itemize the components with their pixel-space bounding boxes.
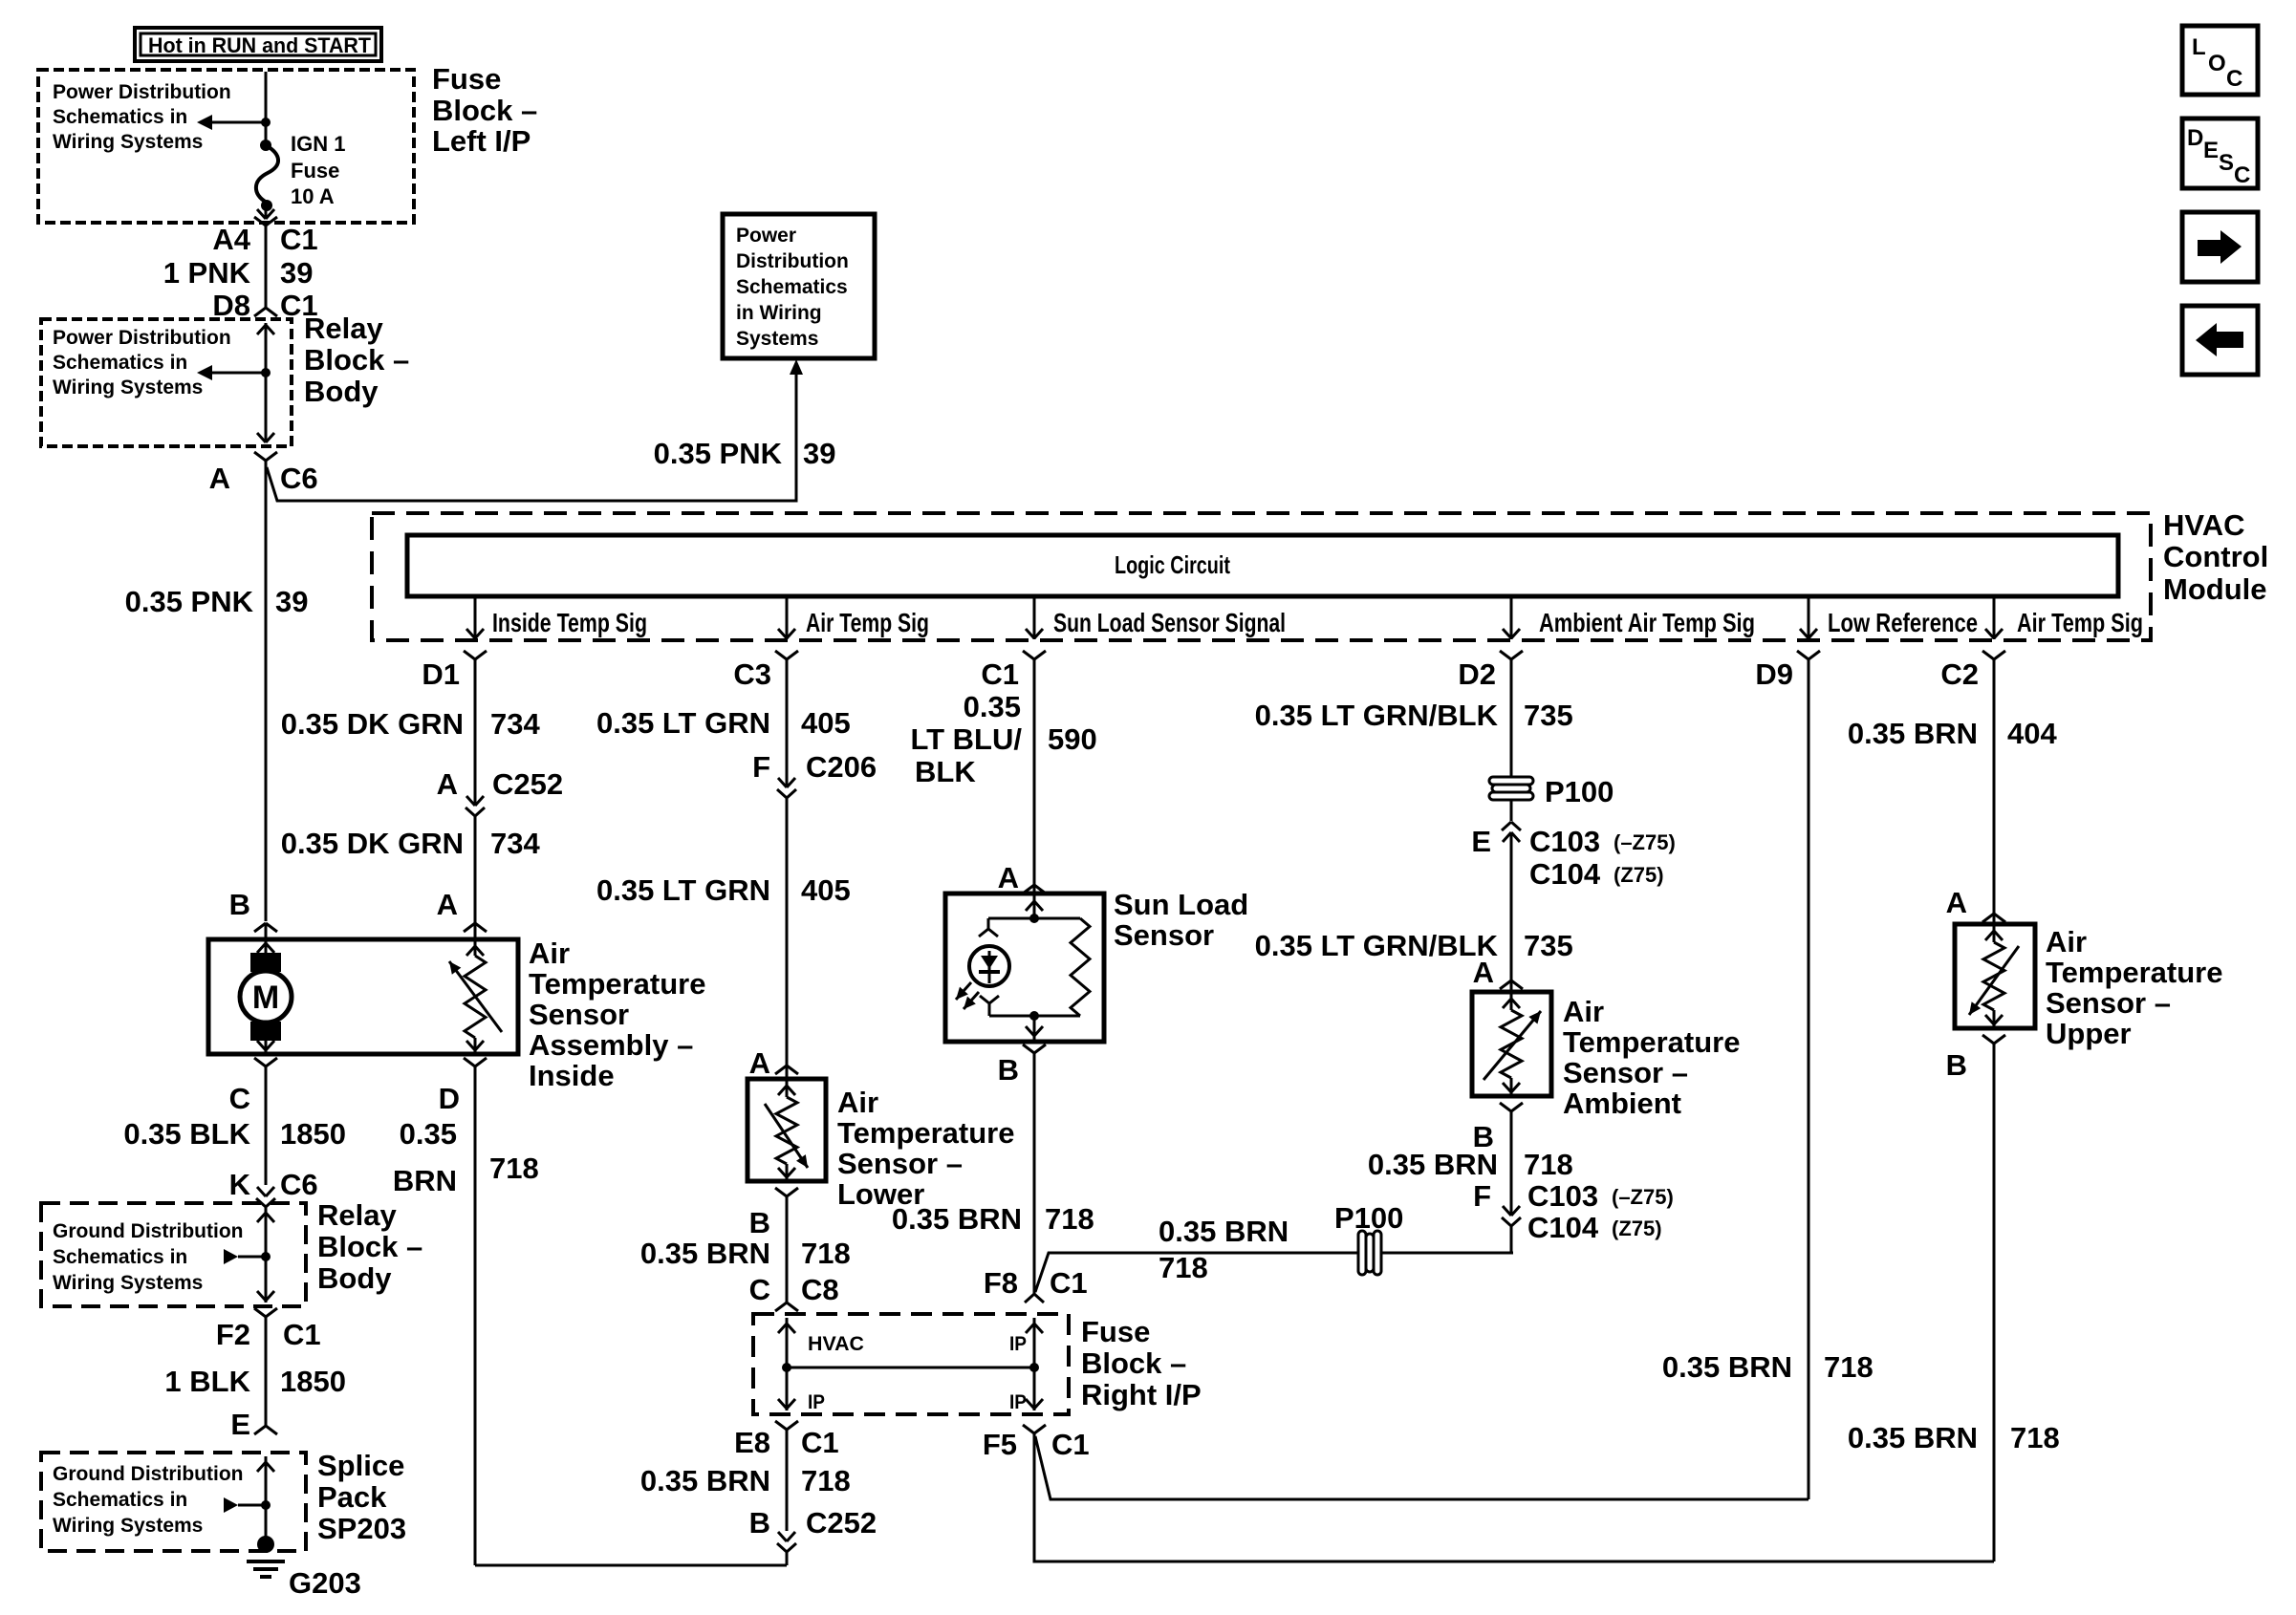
svg-text:Inside: Inside: [529, 1059, 615, 1092]
svg-text:Air: Air: [1563, 995, 1604, 1028]
svg-text:39: 39: [275, 585, 308, 618]
svg-text:D2: D2: [1458, 657, 1496, 691]
svg-text:S: S: [2219, 150, 2234, 176]
svg-text:1 PNK: 1 PNK: [163, 256, 251, 290]
svg-text:Power: Power: [736, 225, 796, 247]
svg-text:Air: Air: [2046, 925, 2087, 958]
svg-text:Upper: Upper: [2046, 1017, 2132, 1050]
svg-text:590: 590: [1048, 722, 1097, 756]
svg-text:Sensor: Sensor: [529, 998, 629, 1031]
svg-text:B: B: [229, 888, 250, 921]
svg-text:Schematics in: Schematics in: [53, 1246, 187, 1268]
svg-text:0.35 BRN: 0.35 BRN: [1662, 1350, 1792, 1384]
svg-text:0.35 BRN: 0.35 BRN: [640, 1237, 770, 1270]
svg-text:Fuse: Fuse: [432, 62, 501, 96]
svg-text:A: A: [1473, 956, 1494, 989]
svg-text:A: A: [437, 767, 458, 801]
svg-text:B: B: [749, 1206, 770, 1239]
svg-text:Sensor: Sensor: [1114, 918, 1214, 952]
svg-text:0.35 BRN: 0.35 BRN: [1368, 1148, 1498, 1181]
svg-text:C: C: [229, 1082, 250, 1115]
svg-text:C206: C206: [806, 750, 877, 784]
svg-text:0.35 BLK: 0.35 BLK: [123, 1117, 250, 1151]
svg-text:A: A: [1946, 886, 1967, 919]
svg-text:Temperature: Temperature: [2046, 956, 2223, 989]
svg-text:C1: C1: [981, 657, 1019, 691]
svg-text:F: F: [1473, 1179, 1491, 1213]
svg-text:Schematics in: Schematics in: [53, 352, 187, 374]
svg-text:HVAC: HVAC: [2163, 508, 2245, 542]
svg-text:Inside Temp Sig: Inside Temp Sig: [492, 608, 647, 637]
svg-text:Power Distribution: Power Distribution: [53, 327, 231, 349]
svg-text:404: 404: [2007, 717, 2057, 750]
svg-text:A4: A4: [212, 223, 250, 256]
svg-text:Ground Distribution: Ground Distribution: [53, 1463, 243, 1485]
svg-text:Body: Body: [304, 375, 379, 408]
svg-text:0.35 PNK: 0.35 PNK: [654, 437, 783, 470]
svg-text:IGN 1: IGN 1: [291, 132, 345, 156]
svg-text:Hot in RUN and START: Hot in RUN and START: [148, 33, 372, 57]
svg-text:Wiring Systems: Wiring Systems: [53, 131, 203, 153]
svg-text:718: 718: [801, 1237, 851, 1270]
svg-text:405: 405: [801, 706, 851, 740]
svg-text:Fuse: Fuse: [291, 159, 339, 183]
svg-text:10 A: 10 A: [291, 184, 335, 208]
svg-text:C1: C1: [280, 223, 318, 256]
svg-text:Distribution: Distribution: [736, 250, 849, 272]
svg-text:Pack: Pack: [317, 1480, 387, 1514]
svg-text:0.35: 0.35: [400, 1117, 457, 1151]
svg-text:C103: C103: [1527, 1179, 1598, 1213]
svg-text:D1: D1: [422, 657, 460, 691]
svg-text:Sun Load: Sun Load: [1114, 888, 1248, 921]
svg-text:Ambient Air Temp Sig: Ambient Air Temp Sig: [1539, 608, 1755, 637]
svg-text:Sun Load Sensor Signal: Sun Load Sensor Signal: [1053, 608, 1286, 637]
svg-text:C104: C104: [1529, 857, 1601, 891]
svg-text:P100: P100: [1334, 1201, 1403, 1235]
svg-text:Right I/P: Right I/P: [1081, 1378, 1202, 1411]
svg-text:Control: Control: [2163, 540, 2268, 573]
svg-text:C6: C6: [280, 462, 318, 495]
svg-text:F2: F2: [216, 1318, 250, 1351]
svg-text:C1: C1: [1050, 1266, 1088, 1300]
svg-text:Ground Distribution: Ground Distribution: [53, 1220, 243, 1242]
svg-text:E8: E8: [734, 1426, 770, 1459]
svg-text:718: 718: [1524, 1148, 1573, 1181]
svg-text:0.35 BRN: 0.35 BRN: [1848, 717, 1978, 750]
svg-text:in Wiring: in Wiring: [736, 302, 822, 324]
svg-text:C252: C252: [492, 767, 563, 801]
svg-text:(Z75): (Z75): [1614, 863, 1664, 887]
svg-text:K: K: [229, 1168, 251, 1201]
svg-text:39: 39: [280, 256, 313, 290]
svg-text:C104: C104: [1527, 1211, 1599, 1244]
svg-text:Splice: Splice: [317, 1449, 404, 1482]
svg-text:Block –: Block –: [432, 94, 537, 127]
svg-text:Wiring Systems: Wiring Systems: [53, 377, 203, 398]
svg-text:IP: IP: [1009, 1391, 1027, 1413]
svg-text:A: A: [749, 1046, 770, 1080]
svg-text:C1: C1: [801, 1426, 839, 1459]
svg-text:Block –: Block –: [304, 343, 409, 377]
svg-text:734: 734: [490, 827, 540, 860]
svg-text:718: 718: [1045, 1202, 1094, 1236]
svg-text:C252: C252: [806, 1506, 877, 1540]
svg-text:B: B: [749, 1506, 770, 1540]
svg-text:734: 734: [490, 707, 540, 741]
svg-text:C8: C8: [801, 1273, 839, 1306]
svg-text:LT BLU/: LT BLU/: [910, 722, 1022, 756]
svg-text:Logic Circuit: Logic Circuit: [1115, 550, 1230, 579]
svg-text:Air Temp Sig: Air Temp Sig: [2017, 608, 2143, 637]
svg-text:Temperature: Temperature: [1563, 1025, 1741, 1059]
svg-text:E: E: [230, 1408, 250, 1441]
svg-text:Wiring Systems: Wiring Systems: [53, 1272, 203, 1294]
svg-text:Air: Air: [529, 937, 570, 970]
svg-text:Schematics in: Schematics in: [53, 1489, 187, 1511]
svg-text:P100: P100: [1545, 775, 1614, 808]
svg-text:1850: 1850: [280, 1365, 346, 1398]
svg-text:C6: C6: [280, 1168, 318, 1201]
svg-text:Sensor –: Sensor –: [2046, 986, 2171, 1020]
svg-text:L: L: [2192, 34, 2206, 60]
svg-text:Air Temp Sig: Air Temp Sig: [806, 608, 929, 637]
svg-text:1 BLK: 1 BLK: [164, 1365, 250, 1398]
svg-text:G203: G203: [289, 1566, 361, 1600]
svg-text:1850: 1850: [280, 1117, 346, 1151]
svg-text:0.35 DK GRN: 0.35 DK GRN: [281, 707, 464, 741]
svg-text:718: 718: [1824, 1350, 1874, 1384]
svg-text:F: F: [752, 750, 770, 784]
svg-text:0.35 BRN: 0.35 BRN: [1159, 1215, 1289, 1248]
svg-text:C: C: [2226, 66, 2242, 92]
svg-text:B: B: [1946, 1048, 1967, 1082]
svg-text:405: 405: [801, 873, 851, 907]
svg-text:Sensor –: Sensor –: [837, 1147, 963, 1180]
svg-text:(–Z75): (–Z75): [1614, 830, 1676, 854]
svg-text:Sensor –: Sensor –: [1563, 1056, 1688, 1089]
svg-text:718: 718: [2010, 1421, 2060, 1454]
svg-text:Schematics in: Schematics in: [53, 106, 187, 128]
svg-text:(Z75): (Z75): [1612, 1217, 1662, 1240]
svg-text:A: A: [209, 462, 230, 495]
svg-text:0.35 LT GRN/BLK: 0.35 LT GRN/BLK: [1255, 929, 1499, 962]
svg-text:A: A: [998, 861, 1019, 894]
svg-text:C3: C3: [733, 657, 771, 691]
svg-text:Schematics: Schematics: [736, 276, 848, 298]
svg-text:39: 39: [803, 437, 835, 470]
svg-text:Body: Body: [317, 1261, 392, 1295]
svg-text:0.35 DK GRN: 0.35 DK GRN: [281, 827, 464, 860]
svg-text:D9: D9: [1755, 657, 1793, 691]
svg-text:(–Z75): (–Z75): [1612, 1185, 1674, 1209]
svg-text:D: D: [439, 1082, 460, 1115]
svg-text:O: O: [2208, 51, 2226, 76]
svg-text:E: E: [2203, 138, 2219, 163]
svg-text:0.35 BRN: 0.35 BRN: [1848, 1421, 1978, 1454]
svg-text:718: 718: [801, 1464, 851, 1497]
svg-text:IP: IP: [1009, 1333, 1027, 1355]
svg-text:735: 735: [1524, 929, 1573, 962]
svg-text:0.35: 0.35: [964, 690, 1021, 723]
svg-text:Block –: Block –: [317, 1230, 422, 1263]
svg-text:D: D: [2187, 125, 2203, 151]
svg-text:C: C: [749, 1273, 770, 1306]
svg-text:Air: Air: [837, 1086, 878, 1119]
svg-text:0.35 BRN: 0.35 BRN: [892, 1202, 1022, 1236]
svg-text:C2: C2: [1940, 657, 1979, 691]
svg-text:IP: IP: [808, 1391, 825, 1413]
svg-text:BRN: BRN: [393, 1164, 457, 1197]
svg-text:0.35 PNK: 0.35 PNK: [125, 585, 254, 618]
svg-text:Module: Module: [2163, 572, 2267, 606]
svg-text:0.35 BRN: 0.35 BRN: [640, 1464, 770, 1497]
svg-text:C1: C1: [283, 1318, 321, 1351]
svg-text:Block –: Block –: [1081, 1346, 1186, 1380]
svg-text:Power Distribution: Power Distribution: [53, 81, 231, 103]
svg-text:Ambient: Ambient: [1563, 1087, 1681, 1120]
svg-text:F5: F5: [983, 1428, 1017, 1461]
svg-text:735: 735: [1524, 699, 1573, 732]
svg-text:C: C: [2234, 162, 2250, 188]
svg-text:M: M: [252, 980, 279, 1016]
svg-text:F8: F8: [984, 1266, 1018, 1300]
svg-text:Fuse: Fuse: [1081, 1315, 1150, 1348]
svg-text:BLK: BLK: [915, 755, 976, 788]
svg-text:0.35 LT GRN/BLK: 0.35 LT GRN/BLK: [1255, 699, 1499, 732]
svg-text:SP203: SP203: [317, 1512, 406, 1545]
svg-text:Temperature: Temperature: [529, 967, 706, 1001]
svg-text:Left I/P: Left I/P: [432, 124, 531, 158]
svg-text:C103: C103: [1529, 825, 1600, 858]
svg-text:A: A: [437, 888, 458, 921]
svg-text:0.35 LT GRN: 0.35 LT GRN: [596, 873, 770, 907]
svg-text:C1: C1: [1051, 1428, 1090, 1461]
svg-text:D8: D8: [212, 289, 250, 322]
svg-text:Relay: Relay: [317, 1198, 397, 1232]
svg-text:Low Reference: Low Reference: [1828, 608, 1978, 637]
svg-text:B: B: [998, 1053, 1019, 1087]
svg-text:HVAC: HVAC: [808, 1333, 864, 1355]
svg-text:Relay: Relay: [304, 312, 383, 345]
svg-text:Assembly –: Assembly –: [529, 1028, 693, 1062]
svg-text:718: 718: [1159, 1251, 1208, 1284]
svg-text:Wiring Systems: Wiring Systems: [53, 1515, 203, 1537]
svg-text:E: E: [1471, 825, 1491, 858]
svg-text:718: 718: [489, 1152, 539, 1185]
svg-text:Temperature: Temperature: [837, 1116, 1015, 1150]
svg-text:0.35 LT GRN: 0.35 LT GRN: [596, 706, 770, 740]
svg-text:Systems: Systems: [736, 328, 818, 350]
